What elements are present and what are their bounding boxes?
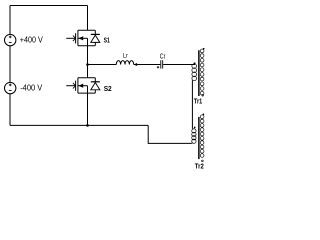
voltage source V2 -400 V: [5, 82, 16, 93]
transformer Tr1: [192, 48, 205, 96]
node A half-bridge midpoint: [87, 46, 89, 78]
transistor S2 mosfet: [66, 78, 95, 93]
wire between sources: [9, 46, 11, 83]
transistor S1 mosfet: [66, 30, 95, 45]
wire Tr1 primary to Tr2 primary: [191, 81, 193, 129]
transformer Tr2: [192, 113, 205, 161]
diode D2 body diode of S2: [91, 78, 100, 93]
svg-text:+400 V: +400 V: [20, 35, 43, 45]
wire left rail upper: [9, 6, 11, 35]
inductor Lr: [116, 61, 133, 65]
wire Cr to Tr1: [163, 64, 195, 66]
wire Lr to Cr: [134, 64, 161, 66]
capacitor Cr: [157, 60, 163, 68]
node B bottom junction: [86, 124, 89, 127]
voltage source V1 +400 V: [5, 34, 16, 45]
wire S2 source rail: [87, 93, 89, 125]
svg-text:S2: S2: [104, 84, 112, 93]
current arrow of Lr: [134, 63, 138, 66]
wire top rail: [10, 5, 88, 7]
wire left rail lower: [9, 94, 11, 126]
wire bottom rail: [10, 124, 148, 126]
svg-text:Tr1: Tr1: [194, 99, 202, 106]
svg-text:S1: S1: [104, 35, 110, 44]
svg-text:-400 V: -400 V: [20, 83, 42, 93]
svg-text:Tr2: Tr2: [195, 161, 204, 170]
svg-text:Cr: Cr: [160, 52, 166, 61]
wire midpoint to Lr: [88, 64, 117, 66]
svg-text:Lr: Lr: [123, 52, 129, 59]
wire S1 drain rail: [87, 6, 89, 31]
wire bottom step to Tr2: [148, 125, 191, 143]
diode D1 body diode of S1: [91, 30, 100, 45]
